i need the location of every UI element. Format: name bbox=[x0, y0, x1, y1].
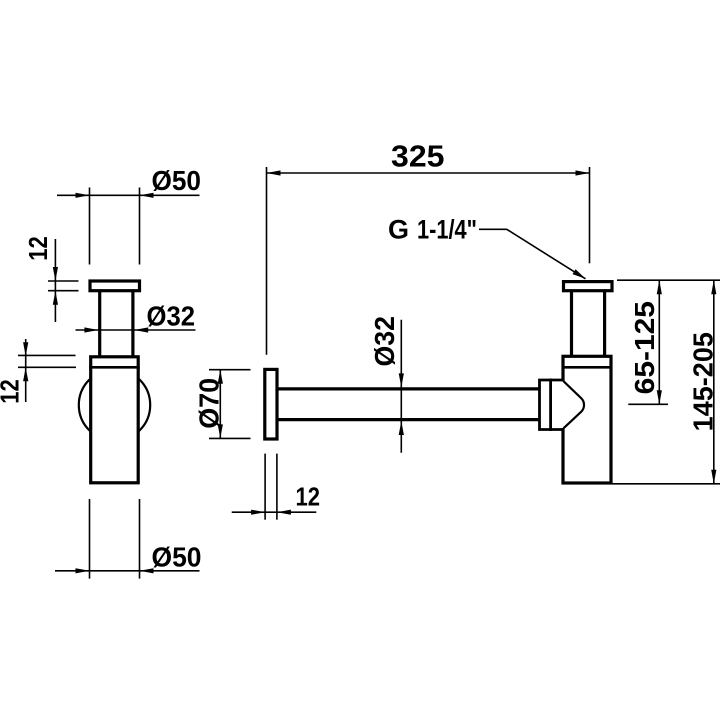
svg-text:Ø32: Ø32 bbox=[369, 316, 400, 367]
svg-text:12: 12 bbox=[0, 379, 24, 404]
svg-text:G: G bbox=[388, 214, 409, 244]
svg-text:Ø70: Ø70 bbox=[194, 378, 225, 429]
svg-text:1-1/4": 1-1/4" bbox=[417, 214, 477, 244]
svg-text:Ø50: Ø50 bbox=[152, 541, 202, 572]
svg-text:12: 12 bbox=[296, 482, 321, 512]
svg-text:325: 325 bbox=[391, 139, 445, 174]
svg-text:Ø32: Ø32 bbox=[147, 300, 196, 331]
svg-text:Ø50: Ø50 bbox=[152, 165, 202, 196]
svg-text:145-205: 145-205 bbox=[688, 332, 719, 431]
svg-text:65-125: 65-125 bbox=[629, 301, 660, 394]
svg-text:12: 12 bbox=[23, 236, 53, 261]
